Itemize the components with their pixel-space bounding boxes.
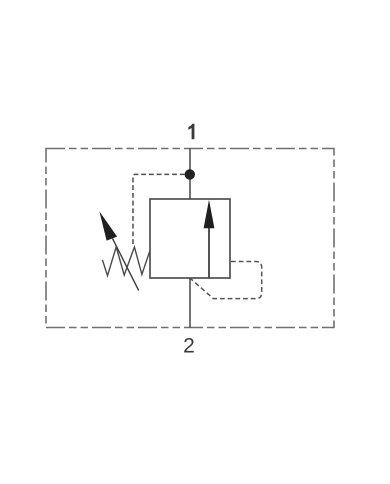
port label 1 [188,124,194,139]
node junction dot [185,169,195,179]
pilot line from outlet around to valve (dashed) [191,262,262,299]
valve body square [150,199,230,278]
spring [102,247,150,276]
flow arrow inside valve [204,200,215,278]
adjustment arrow through spring [99,211,138,290]
svg-text:2: 2 [183,335,195,358]
valve enclosure dashed boundary [46,149,334,328]
wire valve body to port 2 [189,278,191,328]
pilot line from node to spring (dashed) [133,174,185,246]
wire port 1 to valve body [189,149,191,200]
